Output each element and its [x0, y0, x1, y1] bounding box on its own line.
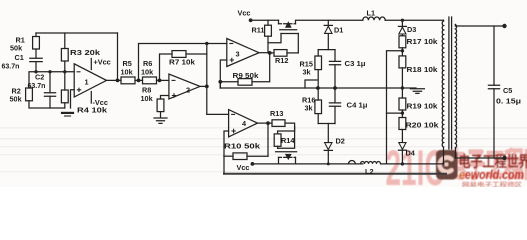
svg-text:L2: L2	[365, 167, 374, 176]
svg-text:R20 10k: R20 10k	[406, 121, 440, 130]
svg-text:10k: 10k	[121, 68, 134, 77]
svg-text:C5: C5	[503, 86, 512, 95]
svg-text:L1: L1	[367, 9, 376, 18]
svg-text:R3 20k: R3 20k	[70, 48, 101, 57]
svg-text:Vcc: Vcc	[237, 163, 250, 172]
svg-text:R10 50k: R10 50k	[224, 142, 261, 151]
svg-text:0. 15μ: 0. 15μ	[496, 99, 521, 106]
svg-text:eeworld.com: eeworld.com	[459, 168, 524, 182]
svg-text:R9 50k: R9 50k	[233, 71, 260, 80]
svg-text:3k: 3k	[305, 104, 314, 113]
svg-text:50k: 50k	[10, 95, 23, 104]
svg-text:C4 1μ: C4 1μ	[347, 101, 368, 110]
svg-text:D4: D4	[406, 149, 416, 158]
svg-text:-Vcc: -Vcc	[93, 98, 108, 107]
svg-text:D3: D3	[407, 25, 416, 34]
svg-text:C1: C1	[15, 53, 24, 62]
svg-text:R7 10k: R7 10k	[169, 58, 196, 67]
svg-text:3: 3	[236, 50, 240, 59]
svg-text:1: 1	[85, 78, 89, 87]
svg-text:10k: 10k	[141, 68, 154, 77]
svg-text:C2: C2	[35, 73, 44, 82]
svg-text:C3 1μ: C3 1μ	[345, 59, 366, 68]
svg-text:+Vcc: +Vcc	[94, 58, 111, 67]
svg-text:R12: R12	[275, 56, 288, 65]
svg-text:3k: 3k	[303, 68, 312, 77]
svg-text:R18 10k: R18 10k	[407, 65, 439, 74]
svg-text:R14: R14	[281, 136, 295, 145]
svg-text:Vcc: Vcc	[238, 9, 251, 18]
svg-text:R11: R11	[252, 26, 265, 35]
svg-text:10k: 10k	[141, 94, 154, 103]
svg-text:D2: D2	[336, 137, 345, 146]
svg-text:50k: 50k	[10, 44, 23, 53]
svg-text:R17 10k: R17 10k	[407, 37, 439, 46]
svg-text:63.7n: 63.7n	[28, 83, 46, 90]
svg-text:R13: R13	[270, 109, 283, 118]
svg-text:R19 10k: R19 10k	[407, 102, 439, 111]
svg-text:4: 4	[242, 119, 247, 128]
svg-text:2: 2	[186, 86, 190, 95]
svg-text:63.7n: 63.7n	[2, 64, 20, 71]
svg-text:D1: D1	[334, 26, 343, 35]
